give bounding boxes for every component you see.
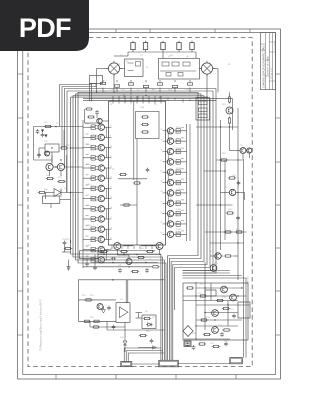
IC bottom transistor QL [114,243,121,250]
title block row dividers [260,42,275,81]
resistor R78 [216,299,224,301]
wire bottom-left block left edge [77,280,79,322]
resistor R43 [137,256,145,258]
wire IC bottom stubs [117,246,159,255]
resistor R64 [228,177,236,179]
pin cell left 9: resistors R118a/b [83,207,98,212]
pin cell right 2: resistors R131a/b [174,139,187,144]
resistor R46 [151,266,159,268]
resistor R41 [100,250,108,252]
node junction left feed [55,126,57,128]
wire emitter link [105,148,107,158]
wire top bus line 2 [76,93,202,95]
op-amp U5 box [116,303,130,323]
IC bottom edge pin stubs [112,245,158,249]
wire left bundle vertical 3 [76,94,165,344]
connector CN3 bottom left pad [121,362,132,367]
svg-text:SHEET 1 OF 2 MAIN: SHEET 1 OF 2 MAIN [267,56,270,75]
resistor R72 [222,307,230,309]
title block divider column 2 [268,33,270,90]
frame ruler ticks right edge [276,74,281,335]
svg-text:CHASSIS 11AK19 SCHEMATIC DIAG: CHASSIS 11AK19 SCHEMATIC DIAG [262,46,265,88]
label speck right [181,137,184,139]
box U2 inner resistors [199,101,208,118]
svg-text:U1A: U1A [140,106,145,109]
wire h tie y205 [196,204,233,206]
resistor R21 [44,125,52,127]
capacitor C74 [232,314,236,319]
IC inner resistor Rb [141,123,149,125]
wire vertical x225 [224,160,226,240]
wire br h y296 [183,295,247,297]
IC inner resistor Ra [141,116,149,118]
wire q65 links [210,255,238,257]
transistor Q51 [97,304,103,310]
IC inner small res Rf [122,204,130,206]
signal arrow down [67,260,70,271]
transistor Q115 (left column) [98,175,104,181]
diode D53 vertical [123,322,127,352]
pin cell left 2: resistors R111a/b [83,135,98,140]
connector CN1 bottom center [159,360,179,367]
resistor R52 [83,320,91,322]
transistor Q133 (right column) [167,159,173,165]
pin cell right 11: resistors R140a/b [174,232,187,237]
svg-text:RGB: RGB [168,90,173,92]
wire top row risers [114,52,196,59]
label speck right [181,199,184,201]
wire h tie y127 [196,126,238,128]
cluster left of IC top: transistor Q109 [97,118,102,123]
wire top bus line D (feeds left cluster 4) [67,91,213,193]
label speck right [181,230,184,232]
sheet inner border frame [23,33,276,375]
label speck right [181,168,184,170]
resistor R67 [235,231,243,233]
resistor R23 [60,147,68,149]
resistor R26 [38,191,46,193]
IC U1 top pin stubs [113,96,161,101]
wire IC to cell right 10 [166,223,168,225]
bridge symbol B1 [106,61,122,77]
box sub B left [43,196,60,204]
box sub A left [45,144,59,152]
wire stubs from component row to bus [103,80,190,92]
wire chain x229 down [229,125,231,151]
svg-text:13: 13 [110,176,112,178]
resistor R55 [139,334,147,336]
wire emitter link [105,127,107,137]
wire q64 links [221,193,245,201]
wire vertical x238 long [237,108,239,280]
filled arrow mark 2 [45,135,48,138]
wire lower link y327 [90,326,125,328]
wire cluster B link [52,148,83,163]
wire top bus line B (feeds left cluster 2) [62,87,97,149]
wire left bundle vertical 4 [78,92,166,344]
pin cell left 3: resistors R112a/b [83,145,98,150]
wire cell left 2 to IC [105,136,109,138]
resistor R27 [64,247,72,249]
wire br inner h y326 [196,325,238,327]
transistor Q120 (left column) [98,226,104,232]
pin cell left 5: resistors R114a/b [83,166,98,171]
resistor R42 [120,250,128,252]
bottom-right block outline box [183,283,248,340]
capacitor C21 [36,129,40,134]
wire cell left 13 to IC [105,249,109,251]
wire IC to cell right 3 [166,151,168,153]
resistor R24 [46,177,54,179]
wire aux box stub [95,84,97,87]
wire under-IC row 3 [83,266,152,268]
label speck [86,255,89,257]
right pin rail B [189,124,191,241]
svg-text:16: 16 [110,207,112,209]
resistor R53 [92,320,100,322]
wire cell left 5 to IC [105,167,109,169]
wire emitter link [105,209,107,219]
wire IC to cell right 8 [166,202,168,204]
wire IC top-left corner riser pair [90,84,97,102]
transistor Q110 (left column) [98,124,104,130]
capacitor C42 [85,262,89,267]
label speck [86,133,89,135]
wire right pair down to pad [244,278,247,358]
wire box sub B stubs [51,200,71,209]
wire IC to cell right 1 [166,130,168,132]
svg-text:TV8xpucm cajd3a p hsa3 eknccn2: TV8xpucm cajd3a p hsa3 eknccn2KT [39,300,43,351]
pin cell left 6: resistors R115a/b [83,176,98,181]
wire under-IC row 0 [98,250,155,252]
wire IC to cell right 6 [166,182,168,184]
svg-text:14: 14 [110,187,112,189]
inner dashed boundary frame [28,38,252,367]
top resistor row R301-R305 [131,41,194,52]
svg-text:31: 31 [161,222,163,224]
wire left feed vertical [33,127,35,161]
wire cell left 14 to IC [105,259,109,261]
wire top bus line 1 [78,91,198,93]
svg-text:36: 36 [161,170,163,172]
resistor R62 [228,116,230,124]
capacitor C73 [224,342,228,347]
transistor Q62 [240,148,246,154]
transistor Q135 (right column) [167,179,173,185]
op-amp U5 triangle [120,307,129,318]
transistor Q138 (right column) [167,210,173,216]
wire bridge B2 stubs [200,69,219,98]
wire br h y320 [196,319,242,321]
capacitor C62 [236,216,240,221]
wire left bundle vertical 1 [71,97,161,344]
small box aux near bridge B1 [90,76,103,84]
resistor R44 [146,250,154,252]
capacitor C43 [93,266,97,271]
node dots left clusters [51,147,71,193]
transistor Q121 (left column) [98,236,104,242]
svg-text:19: 19 [110,238,112,240]
wire top bus line 3 [73,95,204,97]
label speck [86,174,89,176]
wire br inner v x228 [227,301,229,327]
transistor Q20 small [45,151,50,156]
transistor Q74 [212,310,219,317]
wire left bundle vertical 2 [73,96,163,345]
wire br h y288 [196,287,242,289]
wire arrow feed right [138,346,157,349]
label speck [86,143,89,145]
capacitor C71 [186,342,190,347]
svg-text:35: 35 [161,181,163,183]
wire h y232 [205,231,247,233]
transistor Q130 (right column) [167,128,173,134]
wire left feed horizontal [34,126,84,128]
wire top bus line A (feeds left cluster 1) [60,85,92,127]
wire left aux vertical x64 [63,130,65,148]
resistor R75 [198,343,206,345]
pin cell left 14: resistors R123a/b [83,258,98,263]
wire bottom-left lower rail [107,329,164,331]
svg-text:8: 8 [110,125,111,127]
wire opamp to aux box [136,313,143,319]
wire emitter link right [167,152,169,162]
wire cluster E links [62,240,71,252]
wire vertical x220 [220,120,222,250]
pin cell right 8: resistors R137a/b [174,201,187,206]
wire emitter link right [167,214,169,224]
resistor R54 [143,317,151,319]
label speck [86,194,89,196]
transistor Q123 (left column) [98,257,104,263]
capacitor C61 [237,181,241,186]
IC inner wire lower link [120,204,137,206]
svg-text:32: 32 [161,212,163,214]
svg-text:39: 39 [161,139,163,141]
wire IC to cell right 11 [166,233,168,235]
wire br inner h y300 [183,300,238,302]
label speck [86,123,89,125]
label speck [86,153,89,155]
resistor R76 [212,345,220,347]
svg-text:40: 40 [161,129,163,131]
resistor R61 chain top [228,95,230,103]
pin cell left 8: resistors R117a/b [83,196,98,201]
transistor Q64 [229,189,235,195]
transistor Q131 (right column) [167,138,173,144]
wire emitter link [105,229,107,239]
relay box K1 [125,59,144,77]
label speck [86,215,89,217]
svg-text:12: 12 [110,166,112,168]
label speck right [181,209,184,211]
resistor R65 [226,212,234,214]
transistor Q116 (left column) [98,185,104,191]
title block divider column 1 [264,33,266,90]
wire right bundle vertical 4 [173,97,207,344]
pin cell left 10: resistors R119a/b [83,217,98,222]
wire bottom link to pads [132,363,230,366]
wire cell left 1 to IC [105,126,109,128]
resistor R71 [186,287,194,289]
capacitor C44 [118,268,122,273]
label speck [86,164,89,166]
capacitor C24 [63,241,67,246]
wire lower vertical x107 [106,321,108,330]
wire h tie y243 [210,242,244,244]
node dots right column [220,126,239,243]
transistor Q122 (left column) [98,246,104,252]
right pin rail A [186,124,188,241]
wire split to left pad [124,348,164,362]
pin cell right 4: resistors R133a/b [174,160,187,165]
frame ruler ticks left edge [18,74,23,335]
transistor Q61 [226,107,233,114]
wire cell left 7 to IC [105,187,109,189]
filled arrow mark 1 [41,130,44,133]
box REG1 right [238,302,250,318]
wire emitter link [105,250,107,260]
transistor Q72 [221,286,228,293]
wire bridge B1 stubs [97,69,125,93]
label speck right [181,189,184,191]
wire IC to cell right 7 [166,192,168,194]
transistor Q117 (left column) [98,195,104,201]
resistor R45 [131,270,139,272]
bridge symbol B2 [199,61,215,77]
wire emitter link [105,188,107,198]
wire h tie y171 [204,170,225,172]
wire emitter link right [167,131,169,141]
sheet outer border frame [18,29,281,379]
transistor Q112 (left column) [98,144,104,150]
wire lower stub x90 [89,321,91,327]
wire IC to cell right 5 [166,171,168,173]
wire right bundle vertical 2 [169,94,201,344]
IC inner vertical wire [133,101,135,180]
pin cell right 5: resistors R134a/b [174,170,187,175]
svg-text:10: 10 [110,146,112,148]
label speck right [181,147,184,149]
transistor Q118 (left column) [98,206,104,212]
small resistor row under bridges [100,82,192,87]
transistor Q137 (right column) [167,200,173,206]
resistor R74 [200,319,208,321]
capacitor C75 [220,332,224,337]
wire br rail x205 [204,262,206,330]
wire br rail x196 [195,282,197,340]
wire top bus line 4 [71,96,208,98]
wire q62 area links [216,151,249,161]
pin cell right 1: resistors R130a/b [174,129,187,134]
label speck right [181,126,184,128]
svg-text:18: 18 [110,227,112,229]
svg-text:17: 17 [110,217,112,219]
label speck [86,204,89,206]
resistor R73 [222,329,230,331]
wire right bundle vertical 5 [175,99,211,310]
capacitor C41 [111,257,116,261]
wire top bus drop stubs [124,94,183,103]
wire right bundle vertical 7 [183,89,217,274]
wire bottom-right bus line 1 [183,270,231,272]
pin cell left 4: resistors R113a/b [83,156,98,161]
connector CN2 bottom right pad [230,358,243,364]
title block divider column 3 [272,33,274,90]
small box M1 [205,290,216,296]
IC U1 left edge inner pin stubs [109,125,112,260]
capacitor C52 [150,339,154,344]
wire bottom-right bus line 3 [183,275,243,277]
wire cell left 3 to IC [105,147,109,149]
svg-text:20: 20 [110,248,112,250]
wire right bundle vertical 6 [183,91,214,271]
capacitor C51 [107,306,111,311]
wire bus extension right [210,99,233,130]
cluster left of IC top wires [85,109,109,123]
wire cell left 9 to IC [105,208,109,210]
svg-text:PDF: PDF [19,13,71,43]
relay box K1 inner contacts [128,62,141,71]
wire IC to cell right 4 [166,161,168,163]
pin cell left 7: resistors R116a/b [83,186,98,191]
svg-text:37: 37 [161,160,163,162]
wire bottom-left bottom rail [78,320,116,322]
wire cell left 10 to IC [105,218,109,220]
capacitor C22 [41,133,45,138]
wire bottom-left block top rail [78,279,164,281]
pin cell left 1: resistors R110a/b [83,125,98,130]
tiny reference labels scatter [44,55,243,345]
wire emitter link right [167,193,169,203]
transistor Q119 (left column) [98,216,104,222]
IC inner resistor Rc [141,131,149,133]
label speck [86,225,89,227]
wire bottom-left mid rail [78,299,116,301]
capacitor C45 [145,268,149,273]
transistor Q75 [212,327,219,334]
node bottom-left rail junction [112,279,114,281]
transistor Q113 (left column) [98,155,104,161]
node dots under IC [103,254,146,268]
IC U1 top edge inner pin stubs [113,101,161,103]
svg-text:38: 38 [161,150,163,152]
wire br h y3125 [205,312,238,314]
transistor Q139 (right column) [167,221,173,227]
label speck [86,235,89,237]
IC inner wire center drop [136,139,138,246]
capacitor C72 [192,345,196,350]
IC inner resistor Rd [119,173,127,175]
IC inner cap C inner [146,168,150,173]
wire under-IC row 2 [95,262,158,264]
wire emitter link right [167,172,169,182]
IC inner wire horizontal [118,178,147,180]
wire cell left 11 to IC [105,228,109,230]
frame ruler ticks top edge [56,29,250,33]
label speck right [181,157,184,159]
pin cell right 7: resistors R136a/b [174,191,187,196]
cluster left of IC top: resistor R108 [85,108,93,110]
resistor R68 [224,255,232,257]
transistor Q71 [210,265,217,272]
diode D52 [146,323,153,327]
IC bottom transistor QR [156,243,163,250]
wire right bundle vertical 1 [168,92,198,344]
cluster left of IC top: capacitor C108 [95,110,99,115]
wire br h y305 [196,304,250,306]
wire q21 q22 links [50,167,84,176]
